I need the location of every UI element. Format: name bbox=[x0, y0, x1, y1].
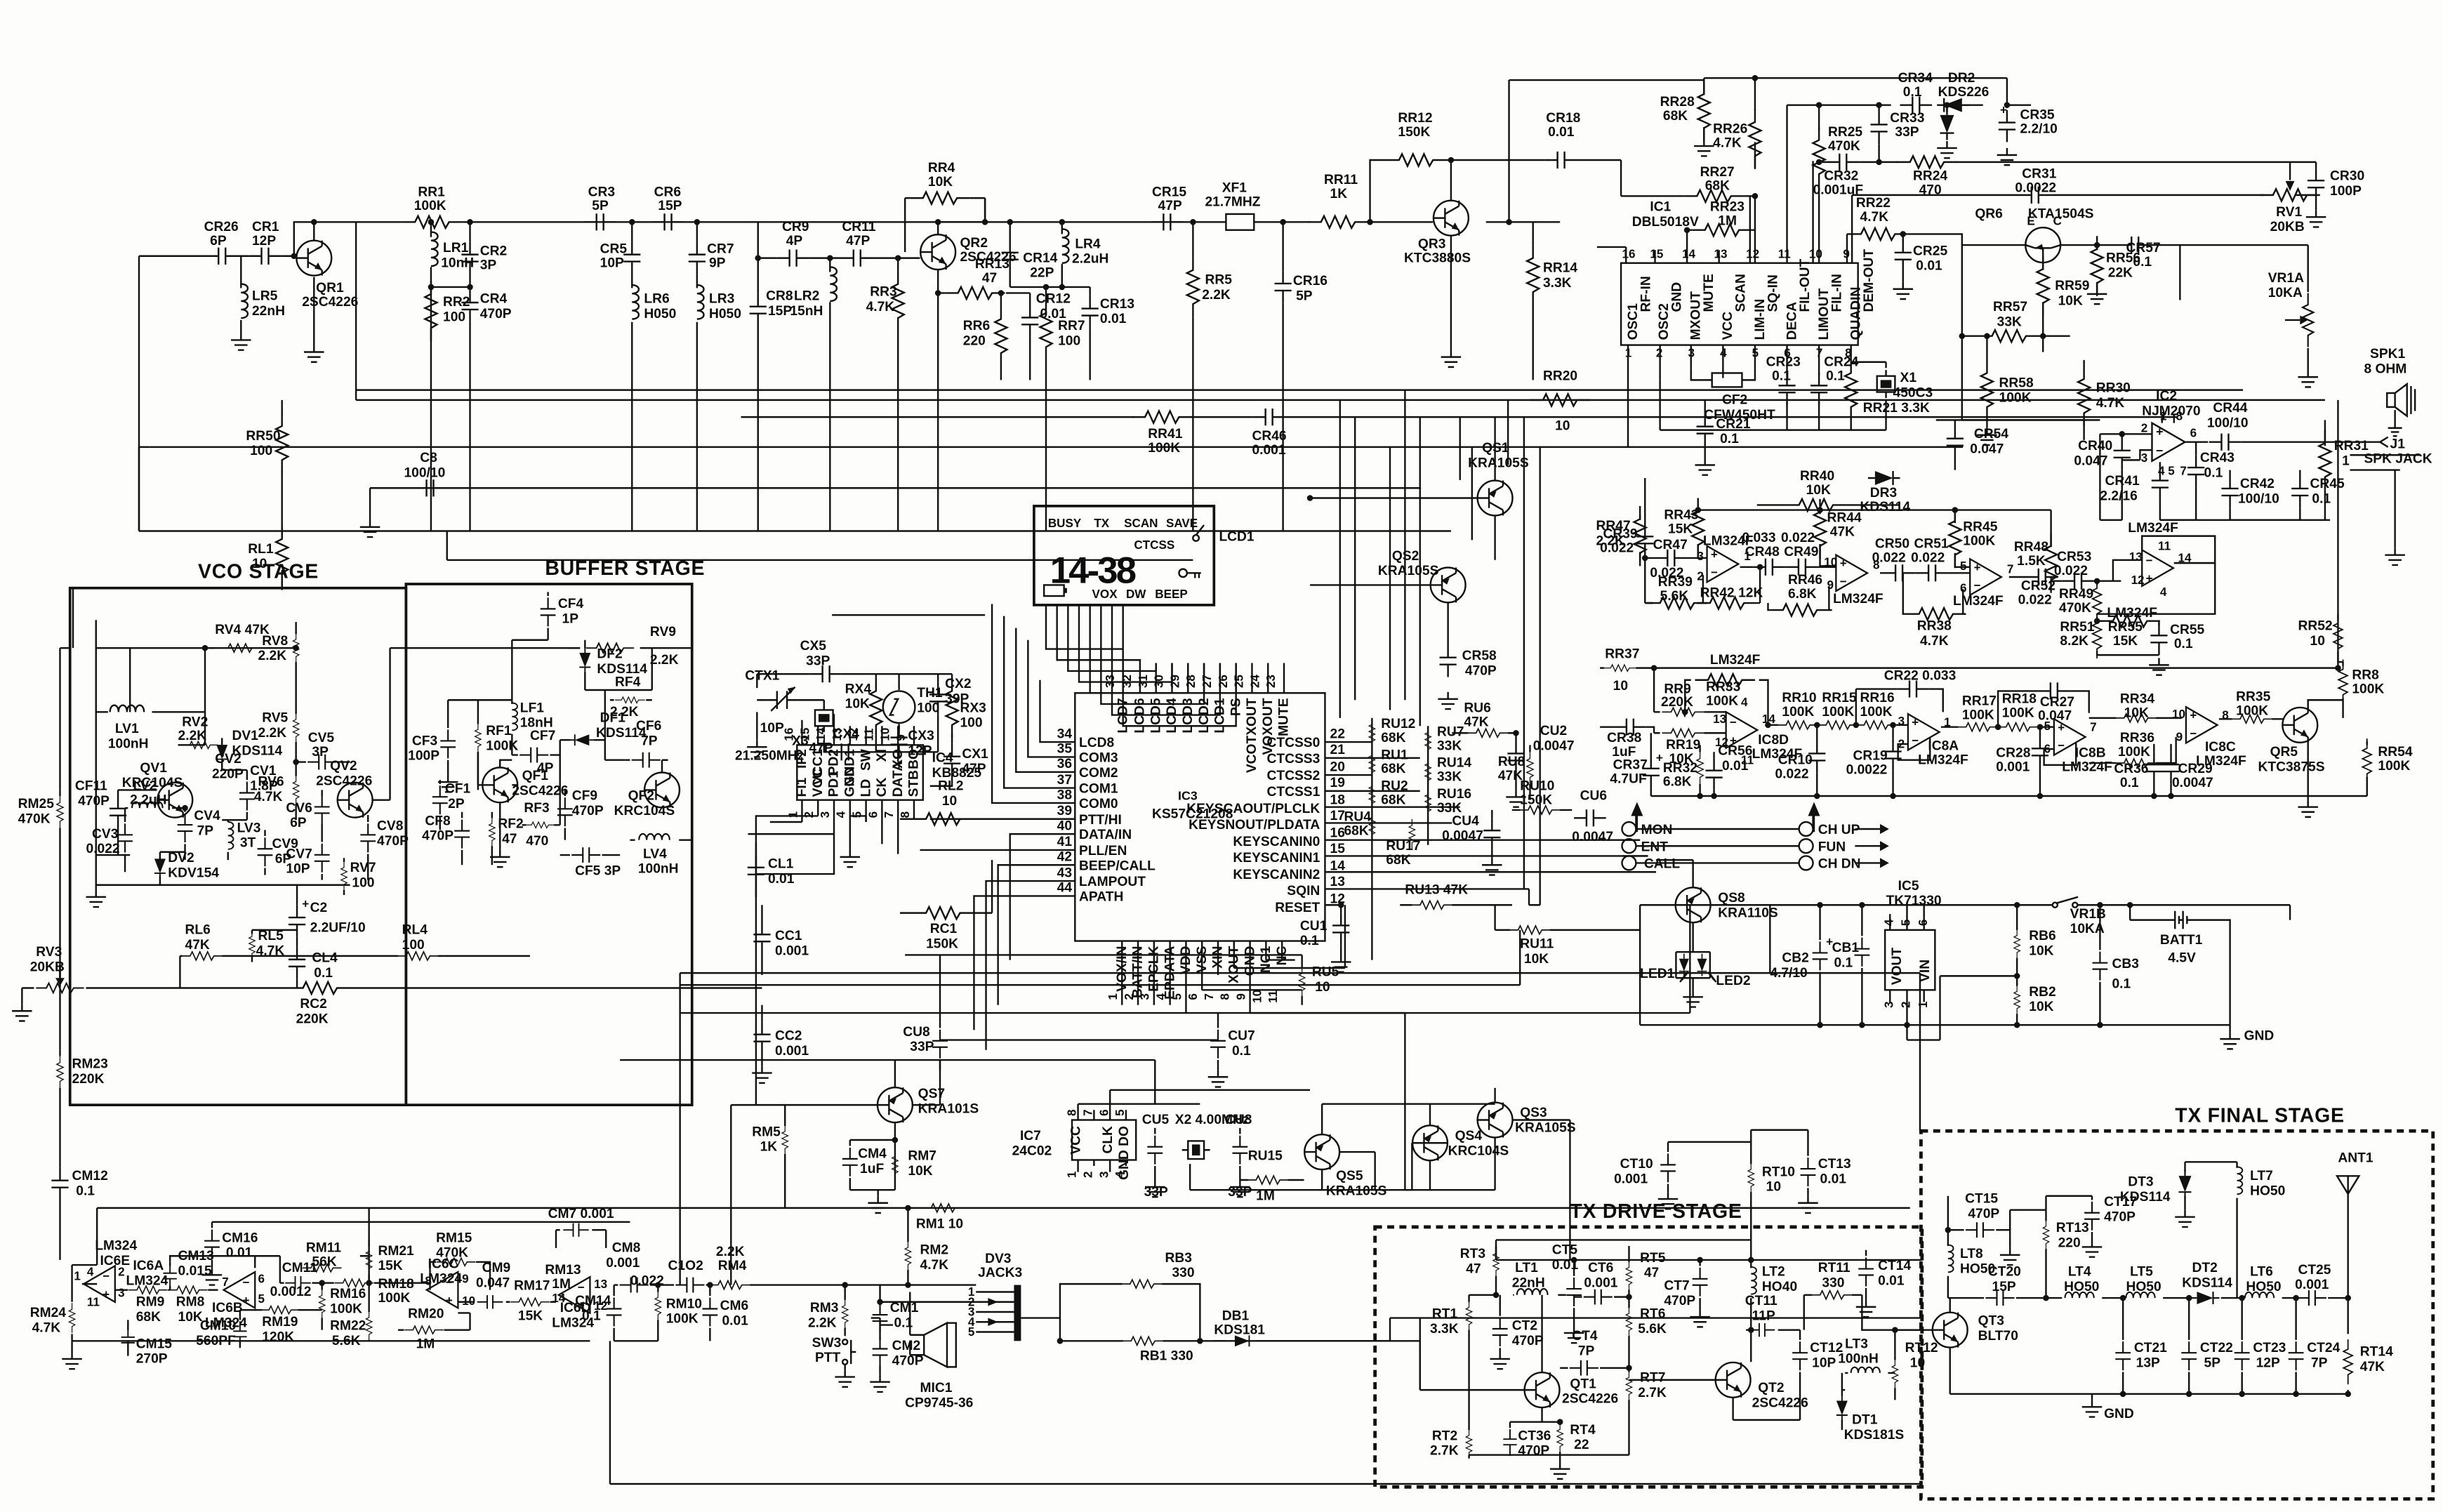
capacitor CR18 bbox=[1545, 152, 1577, 168]
svg-text:470P: 470P bbox=[480, 307, 512, 321]
svg-text:470P: 470P bbox=[1465, 664, 1497, 679]
svg-text:DB1: DB1 bbox=[1222, 1308, 1250, 1323]
svg-text:5: 5 bbox=[2168, 465, 2175, 478]
svg-text:RR27: RR27 bbox=[1700, 165, 1735, 180]
svg-text:0.001: 0.001 bbox=[1996, 760, 2030, 774]
svg-text:0.01: 0.01 bbox=[768, 872, 795, 887]
capacitor CR52 bbox=[2009, 577, 2058, 579]
svg-text:6.8K: 6.8K bbox=[1788, 587, 1817, 602]
wire collector bbox=[938, 198, 1193, 234]
svg-text:3T: 3T bbox=[240, 836, 256, 851]
svg-text:0.1: 0.1 bbox=[1772, 369, 1791, 383]
svg-text:6: 6 bbox=[258, 1273, 265, 1286]
svg-text:15K: 15K bbox=[518, 1308, 543, 1323]
svg-text:100/10: 100/10 bbox=[2238, 492, 2279, 507]
inductor LF1 bbox=[511, 700, 512, 745]
svg-text:0.1: 0.1 bbox=[2174, 637, 2193, 651]
svg-text:0.01: 0.01 bbox=[1100, 312, 1127, 326]
resistor RM25 bbox=[59, 790, 60, 1049]
svg-text:10K: 10K bbox=[928, 175, 953, 190]
wire bus below ic2 bbox=[2100, 434, 2395, 548]
svg-text:CX3: CX3 bbox=[908, 729, 934, 743]
capacitor CM8 bbox=[614, 1285, 658, 1286]
resistor RV9 bbox=[568, 647, 652, 649]
capacitor CR33 bbox=[1879, 105, 1880, 162]
svg-text:8: 8 bbox=[1219, 993, 1232, 1000]
svg-text:KDS181: KDS181 bbox=[1214, 1322, 1265, 1337]
svg-text:SQ-IN: SQ-IN bbox=[1766, 274, 1780, 312]
capacitor CT2 bbox=[1499, 1295, 1501, 1352]
resistor RC1 bbox=[900, 860, 992, 913]
resistor RR4 bbox=[905, 198, 985, 252]
svg-text:CR36: CR36 bbox=[2114, 762, 2148, 776]
svg-text:RR33: RR33 bbox=[1706, 679, 1740, 694]
svg-text:CR8: CR8 bbox=[766, 289, 793, 303]
inductor LR4 bbox=[1010, 222, 1090, 287]
IC4 pin stubs bbox=[802, 714, 914, 854]
svg-text:RT11: RT11 bbox=[1818, 1261, 1851, 1275]
svg-text:1: 1 bbox=[1066, 1171, 1079, 1178]
svg-text:10K: 10K bbox=[178, 1310, 203, 1325]
svg-text:5P: 5P bbox=[2204, 1355, 2221, 1370]
svg-text:7P: 7P bbox=[197, 824, 214, 839]
svg-text:15: 15 bbox=[1650, 248, 1663, 261]
svg-text:0.1: 0.1 bbox=[1826, 369, 1845, 383]
svg-text:RR48: RR48 bbox=[2014, 540, 2048, 555]
capacitor CR11 bbox=[841, 250, 873, 267]
svg-text:RM4: RM4 bbox=[718, 1259, 747, 1273]
svg-text:RR6: RR6 bbox=[963, 319, 990, 333]
svg-text:3: 3 bbox=[1898, 715, 1905, 728]
svg-text:0.047: 0.047 bbox=[2038, 709, 2072, 724]
svg-text:VCOTXOUT: VCOTXOUT bbox=[1245, 698, 1259, 773]
capacitor CR39 bbox=[1636, 524, 1653, 557]
svg-text:10K: 10K bbox=[1524, 952, 1549, 967]
capacitor CR29 bbox=[2171, 744, 2172, 796]
svg-text:11: 11 bbox=[863, 728, 876, 741]
svg-text:RM24: RM24 bbox=[30, 1306, 67, 1320]
svg-text:2: 2 bbox=[802, 811, 816, 818]
svg-text:5.6K: 5.6K bbox=[1660, 589, 1689, 604]
svg-text:CF11: CF11 bbox=[75, 778, 107, 793]
svg-text:13: 13 bbox=[594, 1278, 607, 1291]
resistor RF2 bbox=[491, 812, 493, 865]
svg-text:IC6A: IC6A bbox=[133, 1259, 164, 1273]
svg-text:RU5: RU5 bbox=[1312, 964, 1339, 979]
svg-text:15K: 15K bbox=[378, 1259, 402, 1273]
svg-text:2.2/10: 2.2/10 bbox=[2020, 122, 2057, 137]
svg-text:2.2/16: 2.2/16 bbox=[2100, 489, 2137, 503]
capacitor CV7 bbox=[322, 835, 323, 880]
wire bundle center verticals bbox=[1340, 390, 1420, 727]
capacitor CR30 bbox=[2315, 200, 2317, 210]
svg-text:9: 9 bbox=[1234, 993, 1247, 1000]
resistor RV6 bbox=[296, 762, 297, 821]
svg-text:470P: 470P bbox=[572, 804, 604, 818]
svg-text:KEYSCANIN2: KEYSCANIN2 bbox=[1233, 868, 1320, 882]
svg-text:RT6: RT6 bbox=[1640, 1307, 1665, 1322]
svg-text:RR5: RR5 bbox=[1205, 273, 1232, 288]
svg-text:KDS181S: KDS181S bbox=[1844, 1428, 1905, 1443]
svg-text:RR3: RR3 bbox=[870, 285, 896, 300]
resistor RR42 bbox=[1697, 567, 1760, 603]
svg-text:CM6: CM6 bbox=[720, 1299, 749, 1313]
svg-text:100nH: 100nH bbox=[638, 862, 679, 877]
svg-text:RV2: RV2 bbox=[182, 715, 208, 729]
key icon bbox=[1179, 569, 1186, 577]
svg-text:4.7K: 4.7K bbox=[2096, 396, 2125, 411]
svg-text:2SC4226: 2SC4226 bbox=[316, 774, 372, 788]
IC3 top pin stubs bbox=[1123, 663, 1284, 694]
svg-text:5: 5 bbox=[1960, 559, 1967, 573]
svg-text:2.7K: 2.7K bbox=[1430, 1444, 1459, 1459]
svg-text:220P: 220P bbox=[212, 767, 244, 781]
svg-text:CR26: CR26 bbox=[204, 220, 239, 234]
svg-text:220K: 220K bbox=[72, 1072, 105, 1087]
svg-text:100K: 100K bbox=[666, 1312, 699, 1327]
resistor RL6 bbox=[222, 955, 252, 957]
transistor QT2 bbox=[1716, 1362, 1751, 1398]
svg-text:0.022: 0.022 bbox=[1911, 551, 1945, 566]
resistor RL4 bbox=[297, 955, 398, 957]
svg-text:LCD1: LCD1 bbox=[1213, 698, 1228, 733]
capacitor CV2 bbox=[222, 770, 247, 820]
svg-text:2.2K: 2.2K bbox=[178, 729, 207, 743]
svg-text:GND DO: GND DO bbox=[1117, 1126, 1132, 1180]
svg-text:0.1: 0.1 bbox=[1232, 1044, 1251, 1059]
svg-text:CR51: CR51 bbox=[1914, 537, 1948, 552]
svg-text:150K: 150K bbox=[926, 936, 958, 951]
wire bbox=[355, 222, 357, 400]
capacitor CX2 bbox=[929, 682, 946, 715]
capacitor CR54 bbox=[1936, 420, 2100, 470]
svg-text:RM21: RM21 bbox=[378, 1244, 414, 1259]
svg-text:IC8D: IC8D bbox=[1758, 733, 1789, 748]
wire bbox=[241, 222, 314, 345]
capacitor CR55 bbox=[2150, 623, 2167, 656]
capacitor CR37 polarized bbox=[1650, 733, 1652, 796]
svg-text:CTCSS3: CTCSS3 bbox=[1266, 752, 1320, 767]
svg-text:2.2K: 2.2K bbox=[650, 653, 679, 668]
resistor RR5 bbox=[1192, 222, 1193, 531]
svg-text:47: 47 bbox=[1466, 1261, 1481, 1276]
svg-text:DV3: DV3 bbox=[985, 1252, 1011, 1266]
diode DV1 bbox=[221, 738, 223, 770]
svg-text:X3: X3 bbox=[792, 734, 809, 748]
svg-text:7: 7 bbox=[882, 811, 896, 818]
svg-text:9: 9 bbox=[1827, 578, 1834, 592]
svg-text:68K: 68K bbox=[1381, 793, 1405, 807]
resistor RR12 feedback bbox=[1370, 160, 1545, 222]
resistor RT1 bbox=[1469, 1295, 1496, 1430]
svg-text:4P: 4P bbox=[786, 234, 803, 248]
resistor RR41 bbox=[1132, 411, 1192, 423]
svg-text:RU4: RU4 bbox=[1344, 810, 1371, 825]
switch SW3 PTT bbox=[842, 1339, 847, 1344]
svg-text:C1O2: C1O2 bbox=[668, 1259, 703, 1273]
resistor RR30 bbox=[2084, 360, 2085, 440]
transistor QF2 bbox=[644, 773, 680, 808]
inductor LT3 bbox=[1845, 1372, 1895, 1374]
svg-text:5: 5 bbox=[1113, 1109, 1127, 1116]
svg-text:CR34: CR34 bbox=[1898, 71, 1933, 86]
transistor QS1 bbox=[1478, 481, 1513, 516]
svg-text:RR16: RR16 bbox=[1860, 691, 1895, 705]
svg-text:PD1: PD1 bbox=[827, 771, 842, 797]
svg-text:100K: 100K bbox=[1782, 705, 1814, 719]
transistor QF1 bbox=[482, 767, 517, 802]
svg-text:CF7: CF7 bbox=[530, 729, 555, 743]
svg-text:VCC: VCC bbox=[1068, 1126, 1083, 1155]
svg-text:DATA/IN: DATA/IN bbox=[1079, 828, 1132, 842]
resistor RR28 bbox=[1698, 81, 1710, 140]
capacitor CU3 bbox=[1239, 1128, 1240, 1180]
svg-text:RT14: RT14 bbox=[2360, 1345, 2393, 1360]
capacitor CR53 bbox=[2051, 581, 2113, 582]
svg-text:0.01: 0.01 bbox=[722, 1314, 748, 1329]
capacitor CT23 bbox=[2242, 1298, 2243, 1394]
capacitor CV4 bbox=[185, 808, 186, 860]
wire bbox=[614, 1340, 1390, 1341]
svg-text:10K: 10K bbox=[845, 697, 870, 712]
svg-text:RR46: RR46 bbox=[1788, 573, 1822, 588]
svg-text:100K: 100K bbox=[414, 199, 446, 213]
svg-text:RV3: RV3 bbox=[36, 945, 62, 960]
op-amp IC8B bbox=[2054, 719, 2086, 755]
svg-text:0.1: 0.1 bbox=[1834, 956, 1853, 971]
svg-text:33K: 33K bbox=[1997, 314, 2022, 329]
resistor RR59 bbox=[2042, 263, 2044, 336]
svg-text:IC8A: IC8A bbox=[1928, 738, 1959, 753]
svg-text:3P: 3P bbox=[312, 745, 329, 760]
capacitor CR14 bbox=[1009, 222, 1011, 287]
svg-text:470P: 470P bbox=[1518, 1444, 1549, 1459]
svg-text:DW: DW bbox=[1126, 588, 1146, 601]
svg-text:33K: 33K bbox=[1437, 738, 1462, 753]
wire row2 bottom rail bbox=[1651, 796, 2367, 800]
wire bbox=[139, 222, 985, 531]
svg-text:6: 6 bbox=[2190, 427, 2197, 440]
svg-text:15P: 15P bbox=[768, 304, 792, 319]
svg-text:CT5: CT5 bbox=[1552, 1242, 1578, 1257]
svg-text:10P: 10P bbox=[1812, 1355, 1836, 1370]
svg-text:4.7K: 4.7K bbox=[256, 943, 285, 958]
svg-text:47P: 47P bbox=[809, 741, 833, 755]
diode DR3 bbox=[1868, 471, 1900, 485]
diode DB1 bbox=[1214, 1340, 1226, 1341]
svg-text:RU12: RU12 bbox=[1381, 717, 1415, 731]
svg-text:CV4: CV4 bbox=[194, 809, 220, 823]
capacitor CR5 bbox=[631, 222, 633, 531]
svg-text:470P: 470P bbox=[1664, 1294, 1695, 1308]
capacitor CR1 bbox=[249, 248, 282, 265]
svg-text:6P: 6P bbox=[290, 816, 307, 830]
svg-text:CR37: CR37 bbox=[1613, 758, 1648, 773]
svg-text:0.1: 0.1 bbox=[2133, 255, 2152, 270]
svg-text:100K: 100K bbox=[1822, 705, 1854, 719]
svg-text:CM8: CM8 bbox=[612, 1241, 641, 1256]
resistor RM24 bbox=[72, 1265, 73, 1341]
svg-text:4.7K: 4.7K bbox=[866, 300, 895, 314]
svg-text:22: 22 bbox=[1330, 727, 1345, 741]
resistor RR46 bbox=[1768, 586, 1832, 610]
svg-text:41: 41 bbox=[1057, 835, 1073, 849]
resistor RR47 bbox=[1639, 515, 1641, 560]
svg-text:7: 7 bbox=[2007, 562, 2014, 576]
resistor RR50 bbox=[282, 400, 283, 531]
svg-text:MIC1: MIC1 bbox=[920, 1381, 953, 1395]
svg-text:21.250MHz: 21.250MHz bbox=[735, 749, 804, 764]
svg-text:100K: 100K bbox=[2118, 745, 2150, 760]
crystal X1 bbox=[1851, 362, 1886, 412]
svg-text:CR14: CR14 bbox=[1023, 251, 1057, 265]
svg-text:35: 35 bbox=[1057, 742, 1073, 757]
svg-text:CU6: CU6 bbox=[1580, 789, 1607, 804]
resistor RU6 bbox=[1452, 732, 1516, 734]
svg-text:CT6: CT6 bbox=[1588, 1261, 1613, 1275]
capacitor CT11 bbox=[1746, 1330, 1800, 1362]
IC3 right pin stubs bbox=[1325, 742, 1656, 905]
capacitor CM10 bbox=[240, 1310, 258, 1348]
resistor RM22 bbox=[369, 1283, 370, 1341]
svg-text:CR35: CR35 bbox=[2020, 108, 2054, 123]
svg-text:33P: 33P bbox=[806, 654, 830, 668]
svg-text:RV1: RV1 bbox=[2276, 205, 2302, 220]
svg-text:21: 21 bbox=[1330, 743, 1346, 757]
svg-text:8.2K: 8.2K bbox=[2060, 634, 2088, 649]
svg-text:CR39: CR39 bbox=[1603, 526, 1637, 541]
resistor RR20 bbox=[1559, 399, 1561, 401]
svg-text:J1: J1 bbox=[2390, 437, 2406, 451]
svg-text:11: 11 bbox=[2158, 540, 2171, 553]
output chain wire bbox=[1948, 1297, 2348, 1299]
svg-text:0.022: 0.022 bbox=[2018, 592, 2052, 607]
svg-text:CB1: CB1 bbox=[1832, 941, 1860, 955]
svg-text:QT2: QT2 bbox=[1758, 1381, 1784, 1395]
svg-text:GND: GND bbox=[1670, 282, 1685, 312]
capacitor CT4 bbox=[1560, 1367, 1629, 1369]
capacitor CF7 bbox=[512, 755, 560, 756]
svg-text:CM16: CM16 bbox=[222, 1231, 258, 1245]
svg-text:QR6: QR6 bbox=[1975, 207, 2003, 222]
crystal X3 bbox=[815, 704, 833, 732]
svg-text:RR20: RR20 bbox=[1543, 369, 1577, 383]
svg-text:470P: 470P bbox=[1968, 1207, 1999, 1221]
wire top/bottom rails bbox=[72, 1208, 1910, 1352]
svg-text:LM324F: LM324F bbox=[2062, 760, 2112, 774]
svg-text:100nH: 100nH bbox=[1838, 1352, 1879, 1367]
svg-text:4: 4 bbox=[2158, 465, 2165, 478]
capacitor CR28 bbox=[2039, 727, 2041, 796]
svg-text:C2: C2 bbox=[310, 901, 328, 915]
svg-text:+: + bbox=[302, 898, 309, 911]
svg-text:6: 6 bbox=[1186, 993, 1200, 1000]
capacitor CR27 bbox=[1998, 691, 2089, 727]
svg-text:CR47: CR47 bbox=[1653, 538, 1688, 552]
svg-text:CTCSS: CTCSS bbox=[1134, 538, 1174, 552]
svg-text:LM324: LM324 bbox=[126, 1274, 168, 1289]
capacitor CV6 bbox=[322, 790, 323, 835]
svg-text:CT4: CT4 bbox=[1572, 1329, 1598, 1344]
svg-text:COM2: COM2 bbox=[1079, 766, 1118, 781]
capacitor CU4 bbox=[1491, 810, 1492, 858]
svg-text:CT13: CT13 bbox=[1818, 1157, 1851, 1172]
capacitor CT17 bbox=[2091, 1196, 2093, 1240]
svg-text:CR13: CR13 bbox=[1100, 297, 1134, 312]
svg-text:0.1: 0.1 bbox=[1720, 432, 1739, 446]
IC3 bottom pin names rotated bbox=[1115, 946, 1290, 999]
inductor LT7 bbox=[2237, 1162, 2238, 1298]
svg-text:CTCSS0: CTCSS0 bbox=[1266, 736, 1320, 750]
resistor RM23 bbox=[59, 1050, 60, 1160]
svg-text:CM11: CM11 bbox=[282, 1261, 318, 1275]
svg-text:0.1: 0.1 bbox=[314, 966, 333, 981]
svg-text:68K: 68K bbox=[1381, 762, 1405, 776]
svg-text:RM22: RM22 bbox=[330, 1319, 366, 1334]
svg-text:CR38: CR38 bbox=[1607, 731, 1641, 745]
svg-text:CT10: CT10 bbox=[1620, 1157, 1653, 1172]
resistor RB3 bbox=[1060, 1284, 1200, 1318]
svg-text:CR3: CR3 bbox=[588, 185, 615, 199]
svg-text:RF3: RF3 bbox=[524, 801, 549, 816]
svg-text:1M: 1M bbox=[1718, 214, 1737, 229]
svg-text:GND: GND bbox=[2104, 1407, 2134, 1421]
resistor RT6 bbox=[1628, 1297, 1629, 1368]
resistor RR32 bbox=[1700, 745, 1701, 796]
svg-text:8: 8 bbox=[899, 811, 912, 818]
svg-text:2.2UF/10: 2.2UF/10 bbox=[310, 921, 366, 936]
resistor stack RU7 RU14 RU16 RU17 bbox=[1425, 726, 1431, 756]
svg-text:24C02: 24C02 bbox=[1012, 1143, 1052, 1158]
svg-text:RESET: RESET bbox=[1275, 901, 1320, 915]
svg-text:1M: 1M bbox=[1256, 1188, 1275, 1203]
svg-text:RB6: RB6 bbox=[2029, 929, 2055, 943]
svg-text:COM0: COM0 bbox=[1079, 797, 1118, 811]
svg-text:11: 11 bbox=[1266, 990, 1280, 1003]
svg-text:CV7: CV7 bbox=[286, 847, 312, 861]
pot RV3 bbox=[22, 965, 290, 1004]
svg-text:27: 27 bbox=[1200, 675, 1214, 688]
resistor RM7 bbox=[892, 1150, 899, 1180]
svg-text:CR55: CR55 bbox=[2170, 623, 2204, 637]
resistor RR6 bbox=[1000, 293, 1002, 380]
resistor RL2 bbox=[900, 818, 1075, 820]
svg-text:DT1: DT1 bbox=[1852, 1413, 1878, 1428]
svg-text:43: 43 bbox=[1057, 866, 1072, 880]
capacitor CR2 bbox=[470, 222, 471, 531]
capacitor CR6 bbox=[652, 213, 684, 230]
svg-text:470P: 470P bbox=[1512, 1334, 1544, 1348]
ground buffer bbox=[499, 803, 501, 850]
svg-text:10K: 10K bbox=[908, 1164, 932, 1179]
wire QS3/QS4/QS5 links bbox=[1078, 1090, 1570, 1260]
svg-text:12P: 12P bbox=[252, 234, 276, 248]
svg-text:RR4: RR4 bbox=[928, 161, 955, 175]
IC1 pin stubs top bbox=[1597, 161, 1847, 263]
svg-text:CM4: CM4 bbox=[858, 1147, 887, 1162]
svg-text:33P: 33P bbox=[1895, 125, 1919, 140]
capacitor CF9 bbox=[564, 790, 566, 840]
svg-text:7P: 7P bbox=[2311, 1355, 2328, 1370]
svg-text:CR49: CR49 bbox=[1784, 545, 1818, 559]
svg-text:4.7K: 4.7K bbox=[920, 1258, 949, 1273]
svg-text:CR11: CR11 bbox=[842, 220, 875, 234]
svg-text:RM10: RM10 bbox=[666, 1297, 702, 1311]
wire VCO internals top bbox=[96, 615, 985, 855]
op-amp IC6B bbox=[224, 1272, 256, 1308]
svg-text:CB3: CB3 bbox=[2112, 957, 2138, 971]
svg-text:2.7K: 2.7K bbox=[1638, 1386, 1667, 1400]
